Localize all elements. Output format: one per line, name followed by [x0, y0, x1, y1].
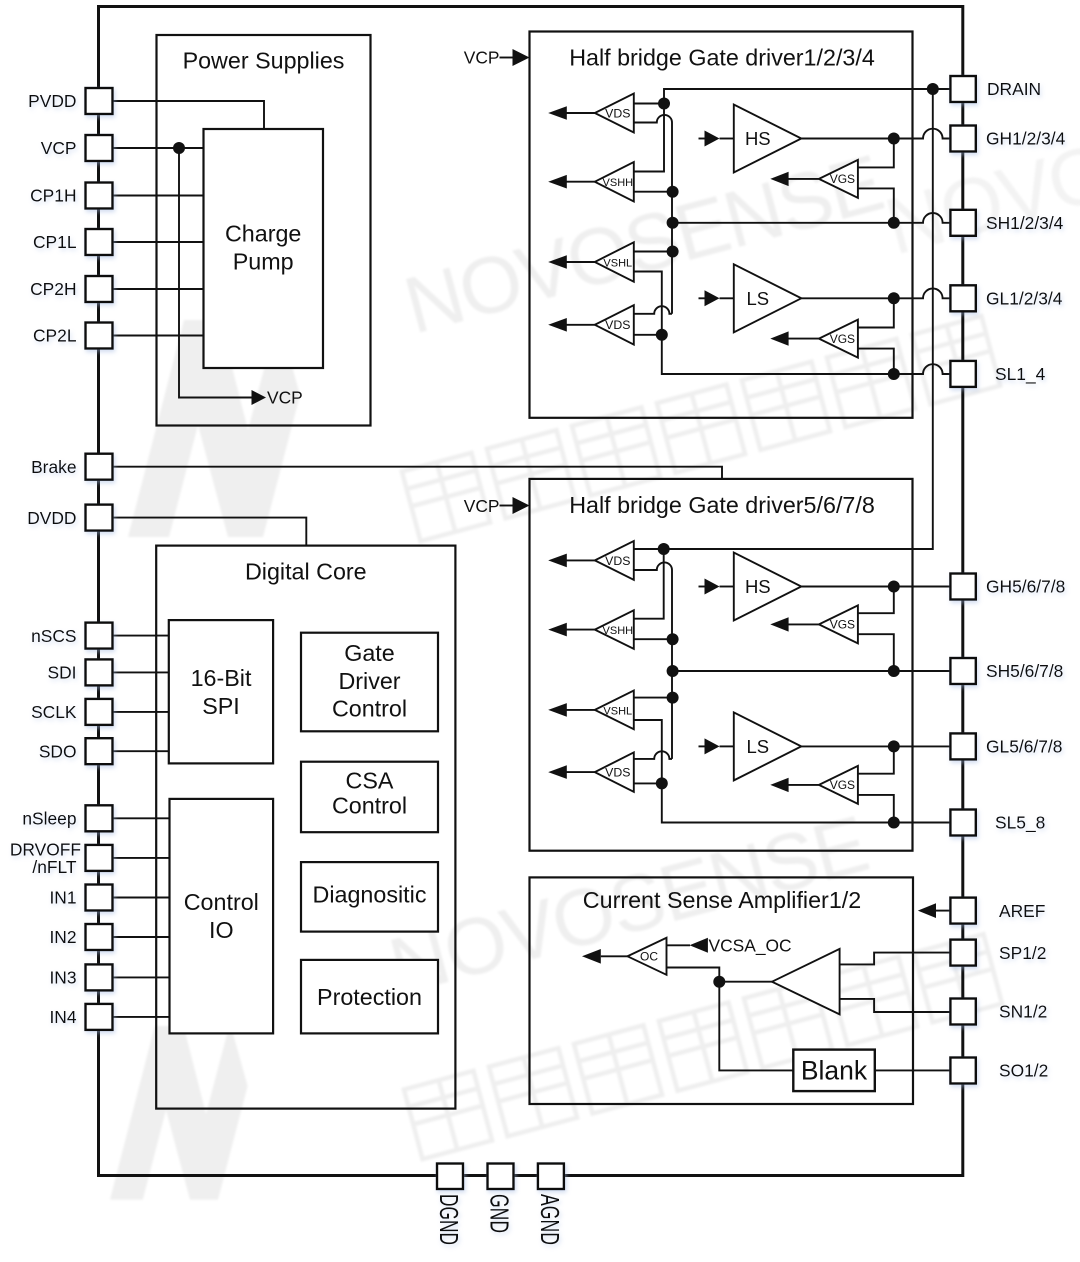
pin GND	[488, 1164, 514, 1190]
junction DRAIN bus	[927, 83, 939, 95]
svg-text:Pump: Pump	[233, 249, 294, 275]
svg-text:CP2L: CP2L	[33, 326, 77, 346]
wire VSHL top input	[634, 251, 673, 253]
comparator VGS LS1	[788, 338, 819, 340]
svg-text:LS: LS	[746, 288, 769, 309]
wire node B2 SH vertical	[671, 570, 673, 759]
wire IN3	[113, 976, 170, 978]
wire to Blank	[719, 982, 793, 1071]
wire IN2	[113, 936, 170, 938]
junction DRAIN node	[658, 98, 670, 110]
svg-text:VCP: VCP	[267, 388, 303, 408]
chip outer border	[99, 7, 963, 1176]
svg-text:SL1_4: SL1_4	[995, 364, 1046, 384]
wire CP1L	[113, 241, 204, 243]
junction SL5-VGS	[888, 817, 900, 829]
svg-text:GL5/6/7/8: GL5/6/7/8	[986, 737, 1062, 757]
wire VGS1 bottom input to SH	[858, 188, 894, 222]
svg-text:HS: HS	[745, 576, 771, 597]
watermark instance 1	[128, 138, 1000, 541]
svg-text:VSHH: VSHH	[603, 625, 634, 637]
wire VCP into block1	[500, 57, 515, 59]
pin SDO	[86, 738, 113, 764]
pin PVDD	[86, 88, 113, 114]
pin GL5/6/7/8	[950, 733, 975, 759]
pin SH5/6/7/8	[950, 658, 975, 684]
junction GH5-VGS	[888, 581, 900, 593]
svg-text:VGS: VGS	[830, 332, 855, 346]
watermark partial top right	[876, 59, 1080, 271]
junction VSHHb-SH	[667, 633, 679, 645]
pin GH1/2/3/4	[950, 126, 975, 152]
junction DRAIN node 2	[658, 543, 670, 555]
wire SN1/2 to amplifier	[840, 999, 951, 1012]
svg-text:OC: OC	[640, 949, 658, 963]
box 16-Bit SPI	[169, 620, 273, 763]
wire VCP to Charge Pump	[113, 147, 204, 149]
svg-text:Power Supplies: Power Supplies	[183, 48, 345, 74]
svg-text:IN4: IN4	[49, 1007, 76, 1027]
svg-text:HS: HS	[745, 128, 771, 149]
svg-text:VDS: VDS	[605, 766, 630, 780]
pin Brake	[86, 454, 113, 480]
comparator OC	[601, 955, 628, 957]
wire VGS4 bottom input to SL5	[858, 795, 894, 823]
svg-text:VSHL: VSHL	[603, 705, 632, 717]
wire IN4	[113, 1016, 170, 1018]
svg-text:GH5/6/7/8: GH5/6/7/8	[986, 577, 1065, 597]
svg-text:VCP: VCP	[464, 496, 500, 516]
wire VDS2b bottom input	[634, 782, 662, 784]
svg-text:VCP: VCP	[41, 138, 77, 158]
comparator VGS LS2	[788, 784, 819, 786]
block Current Sense Amplifier1/2	[530, 877, 914, 1104]
pin GH5/6/7/8	[950, 574, 975, 600]
wire OC bottom input from amp output	[667, 968, 720, 982]
junction SL	[656, 329, 668, 341]
comparator VGS HS1	[788, 178, 819, 180]
block Half bridge Gate driver5/6/7/8	[530, 479, 913, 851]
junction SL-VGS	[888, 368, 900, 380]
svg-text:GH1/2/3/4: GH1/2/3/4	[986, 129, 1066, 149]
svg-text:DGND: DGND	[434, 1194, 464, 1245]
svg-text:Current Sense Amplifier1/2: Current Sense Amplifier1/2	[583, 887, 861, 913]
box CSA Control	[301, 762, 438, 833]
pin SL5_8	[950, 810, 975, 836]
svg-text:Control: Control	[332, 793, 407, 819]
svg-text:CSA: CSA	[346, 767, 394, 793]
svg-text:AREF: AREF	[999, 901, 1045, 921]
pin GL1/2/3/4	[950, 285, 975, 311]
wire GH1/2/3/4 with hop over bus	[801, 129, 950, 139]
wire VCP into block2	[500, 505, 515, 507]
pin SP1/2	[950, 940, 975, 966]
wire GL1/2/3/4 with hop over bus	[801, 288, 950, 298]
svg-text:nSleep: nSleep	[22, 809, 76, 829]
svg-text:SO1/2: SO1/2	[999, 1061, 1048, 1081]
svg-text:VGS: VGS	[830, 172, 855, 186]
svg-text:Control: Control	[184, 889, 259, 915]
pin IN3	[86, 964, 113, 990]
svg-text:Digital Core: Digital Core	[245, 559, 367, 585]
svg-text:SH5/6/7/8: SH5/6/7/8	[986, 661, 1063, 681]
svg-text:SCLK: SCLK	[31, 702, 77, 722]
svg-text:Diagnositic: Diagnositic	[313, 881, 427, 907]
block Half bridge Gate driver1/2/3/4	[530, 32, 913, 418]
svg-text:VDS: VDS	[605, 554, 630, 568]
svg-text:VDS: VDS	[605, 318, 630, 332]
pin DRAIN	[950, 76, 975, 102]
svg-text:Control: Control	[332, 696, 407, 722]
buffer LS1	[699, 297, 706, 299]
box Charge Pump	[204, 129, 324, 368]
wire GH5/6/7/8	[801, 586, 950, 588]
wire VDS2 bottom input	[634, 334, 662, 336]
wire Brake to gate driver 5/6/7/8	[113, 467, 723, 479]
box Gate Driver Control	[301, 633, 438, 732]
wire DVDD to Digital Core	[113, 518, 307, 546]
wire VDS1 bottom input with hop	[634, 115, 672, 123]
junction SL5	[656, 777, 668, 789]
svg-text:LS: LS	[746, 736, 769, 757]
svg-text:CP1H: CP1H	[30, 186, 76, 206]
pin CP2L	[86, 323, 113, 349]
buffer LS2	[699, 745, 706, 747]
comparator VSHL 1	[567, 261, 595, 263]
wire nSCS	[113, 635, 169, 637]
wire node A DRAIN to VSHH	[634, 104, 664, 172]
svg-text:VGS: VGS	[830, 618, 855, 632]
wire DRVOFF/nFLT	[113, 857, 170, 859]
svg-text:VCP: VCP	[464, 48, 500, 68]
comparator VSHL 2	[567, 709, 595, 711]
pin CP1L	[86, 229, 113, 255]
svg-text:/nFLT: /nFLT	[32, 857, 77, 877]
svg-text:GL1/2/3/4: GL1/2/3/4	[986, 289, 1063, 309]
svg-text:VDS: VDS	[605, 106, 630, 120]
wire PVDD to Charge Pump	[113, 101, 264, 129]
svg-text:16-Bit: 16-Bit	[191, 665, 252, 691]
svg-text:CP1L: CP1L	[33, 232, 77, 252]
wire VSHLb top input	[634, 697, 673, 699]
wire SDO	[113, 750, 169, 752]
wire VSHHb bottom input	[634, 638, 673, 640]
wire node C2 SL vertical / SL5_8	[634, 720, 951, 823]
wire node C SL vertical / SL1_4 with hop over bus	[634, 272, 951, 375]
junction SH5	[667, 665, 679, 677]
svg-text:VSHL: VSHL	[603, 257, 632, 269]
svg-text:Driver: Driver	[338, 668, 400, 694]
wire VSHH bottom input	[634, 191, 673, 193]
wire IN1	[113, 897, 170, 899]
wire SDI	[113, 671, 169, 673]
junction VCP	[173, 142, 185, 154]
pin SH1/2/3/4	[950, 210, 975, 236]
junction SH	[667, 217, 679, 229]
block Digital Core	[156, 546, 455, 1109]
comparator VGS HS2	[788, 623, 819, 625]
junction VSHL-SH	[667, 246, 679, 258]
pin IN2	[86, 924, 113, 950]
wire VDS1 top input	[634, 103, 664, 105]
svg-text:IN3: IN3	[49, 968, 76, 988]
svg-text:nSCS: nSCS	[31, 626, 76, 646]
comparator VDS HS2	[567, 559, 595, 561]
junction GL5-VGS	[888, 740, 900, 752]
wire VGS1 top input from GH	[858, 139, 894, 168]
junction SH-VGS	[888, 217, 900, 229]
svg-text:PVDD: PVDD	[28, 91, 76, 111]
junction VSHLb-SH	[667, 692, 679, 704]
block Power Supplies	[157, 35, 371, 426]
svg-text:DRAIN: DRAIN	[987, 79, 1041, 99]
comparator VDS LS2	[567, 771, 595, 773]
pin SCLK	[86, 699, 113, 725]
pin CP1H	[86, 183, 113, 209]
pin nSCS	[86, 623, 113, 649]
wire VDS1b bottom input with hop	[634, 562, 672, 570]
wire SH1/2/3/4 with hop over bus	[673, 213, 951, 223]
svg-text:Blank: Blank	[801, 1056, 868, 1086]
junction GH-VGS	[888, 133, 900, 145]
wire VDS2b top input with hop	[634, 751, 672, 759]
junction SH5-VGS	[888, 665, 900, 677]
pin SO1/2	[950, 1058, 975, 1084]
pin SDI	[86, 659, 113, 685]
wire VCP output of Charge Pump	[179, 148, 252, 398]
comparator VDS HS1	[567, 112, 595, 114]
svg-text:IN2: IN2	[49, 927, 76, 947]
svg-text:Protection: Protection	[317, 984, 422, 1010]
pin IN1	[86, 885, 113, 911]
svg-text:SL5_8: SL5_8	[995, 813, 1045, 833]
pin DRVOFF	[86, 845, 113, 871]
pin DVDD	[86, 505, 113, 531]
wire SH5/6/7/8	[673, 670, 951, 672]
wire amplifier output	[719, 981, 839, 983]
box Protection	[301, 960, 438, 1034]
svg-text:Gate: Gate	[344, 640, 395, 666]
wire SP1/2 to amplifier	[840, 953, 951, 965]
junction GL-VGS	[888, 292, 900, 304]
wire OC top input VCSA_OC	[667, 944, 691, 946]
watermark instance 2	[110, 799, 1002, 1200]
buffer HS2	[699, 586, 706, 588]
comparator VSHH 1	[567, 181, 595, 183]
arrow VCSA_OC	[690, 938, 708, 953]
wire CP2L	[113, 335, 204, 337]
pin AREF	[950, 898, 975, 924]
junction amp output	[713, 976, 725, 988]
arrow VCP out	[252, 390, 267, 405]
svg-text:SN1/2: SN1/2	[999, 1002, 1047, 1022]
svg-text:AGND: AGND	[535, 1194, 565, 1245]
pin CP2H	[86, 276, 113, 302]
box Blank	[793, 1050, 875, 1092]
svg-text:Brake: Brake	[31, 457, 76, 477]
box Control IO	[170, 799, 274, 1034]
wire DRAIN into block1	[664, 89, 950, 104]
buffer HS1	[699, 138, 706, 140]
box Diagnositic	[301, 862, 438, 932]
svg-text:GND: GND	[485, 1194, 515, 1233]
wire VGS3 bottom input to SH5	[858, 634, 894, 671]
wire VGS3 top input from GH5	[858, 587, 894, 614]
svg-text:SH1/2/3/4: SH1/2/3/4	[986, 213, 1064, 233]
svg-text:SP1/2: SP1/2	[999, 943, 1046, 963]
wire VDS1b top input	[634, 548, 664, 550]
svg-text:VGS: VGS	[830, 778, 855, 792]
svg-text:SDI: SDI	[48, 663, 77, 683]
svg-text:CP2H: CP2H	[30, 279, 76, 299]
wire VGS2 bottom input to SL	[858, 349, 894, 374]
svg-text:SDO: SDO	[39, 741, 77, 761]
pin nSleep	[86, 805, 113, 831]
wire CP2H	[113, 288, 204, 290]
comparator VSHH 2	[567, 629, 595, 631]
svg-text:IN1: IN1	[49, 888, 76, 908]
wire node A2 to VSHH	[634, 549, 664, 619]
pin DGND	[437, 1164, 463, 1190]
pin VCP	[86, 135, 113, 161]
svg-text:Half bridge Gate driver5/6/7/8: Half bridge Gate driver5/6/7/8	[569, 492, 875, 518]
pin AGND	[538, 1164, 564, 1190]
svg-text:VCSA_OC: VCSA_OC	[709, 936, 792, 956]
pin SN1/2	[950, 999, 975, 1025]
wire Blank to SO1/2	[875, 1069, 951, 1071]
wire DRAIN bus	[664, 89, 933, 549]
op-amp CSA	[772, 949, 840, 1015]
wire VDS2 top input with hop	[634, 306, 672, 314]
pin SL1_4	[950, 361, 975, 387]
wire nSleep	[113, 817, 170, 819]
comparator VDS LS1	[567, 324, 595, 326]
wire CP1H	[113, 195, 204, 197]
wire SCLK	[113, 711, 169, 713]
wire VGS4 top input from GL5	[858, 746, 894, 773]
wire node B SH vertical	[671, 123, 673, 314]
svg-text:Half bridge Gate driver1/2/3/4: Half bridge Gate driver1/2/3/4	[569, 44, 875, 70]
svg-text:Charge: Charge	[225, 221, 301, 247]
svg-text:IO: IO	[209, 917, 234, 943]
wire AREF with arrow	[936, 910, 951, 912]
svg-text:DVDD: DVDD	[27, 508, 76, 528]
wire VGS2 top input from GL	[858, 298, 894, 327]
svg-text:SPI: SPI	[202, 693, 240, 719]
pin IN4	[86, 1004, 113, 1030]
svg-text:VSHH: VSHH	[603, 177, 634, 189]
junction VSHH-SH	[667, 186, 679, 198]
wire GL5/6/7/8	[801, 745, 950, 747]
